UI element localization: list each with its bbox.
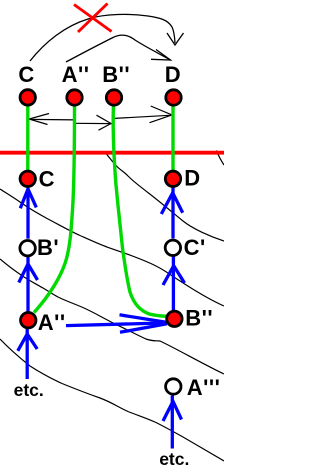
svg-text:A'': A'' [38,310,66,335]
svg-text:B': B' [37,235,59,260]
svg-text:D: D [184,166,200,191]
svg-text:A''': A''' [187,375,221,400]
svg-text:A'': A'' [62,62,90,87]
svg-text:D: D [165,62,181,87]
svg-text:C: C [18,62,34,87]
svg-text:C': C' [184,235,206,260]
svg-text:etc.: etc. [159,449,189,469]
svg-text:B'': B'' [102,62,130,87]
svg-text:B'': B'' [185,306,213,331]
svg-text:etc.: etc. [14,380,44,400]
svg-text:C: C [39,166,55,191]
